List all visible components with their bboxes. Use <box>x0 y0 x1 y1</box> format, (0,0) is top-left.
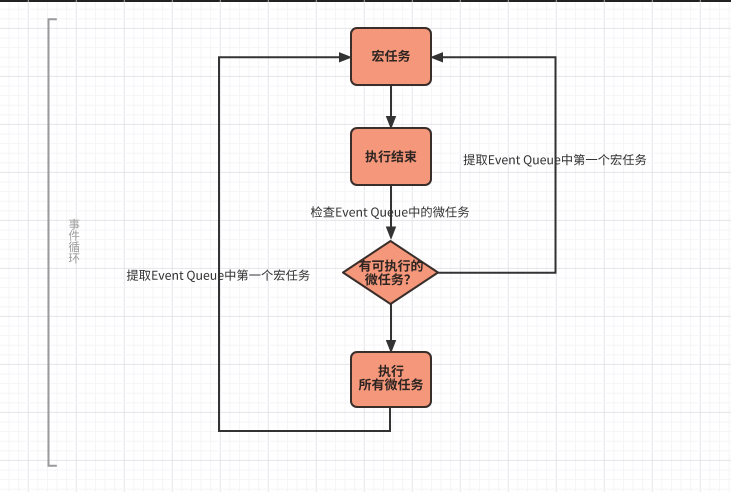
label: 提取Event Queue中第一个宏任务 (left) <box>127 269 310 282</box>
wire: right loop (diamond -> macro task) <box>438 57 556 272</box>
wire: macro task -> execution end <box>390 85 392 118</box>
box: 宏任务 (macro task) <box>351 28 431 85</box>
wire: execution end -> diamond <box>390 185 392 228</box>
label: 事件循环 (vertical) <box>69 219 80 264</box>
box: 执行结束 (execution end) <box>351 128 431 185</box>
box: 执行所有微任务 (execute all microtasks) <box>351 352 431 407</box>
event-loop bracket <box>49 19 57 465</box>
label: 检查Event Queue中的微任务 <box>311 206 469 219</box>
label: 提取Event Queue中第一个宏任务 (right) <box>464 154 647 167</box>
wire: diamond -> execute all microtasks <box>390 304 392 342</box>
top border bar <box>0 0 731 2</box>
wire: left loop (execute all microtasks -> macro task) <box>219 57 390 431</box>
diamond: 有可执行的微任务? <box>343 241 438 304</box>
